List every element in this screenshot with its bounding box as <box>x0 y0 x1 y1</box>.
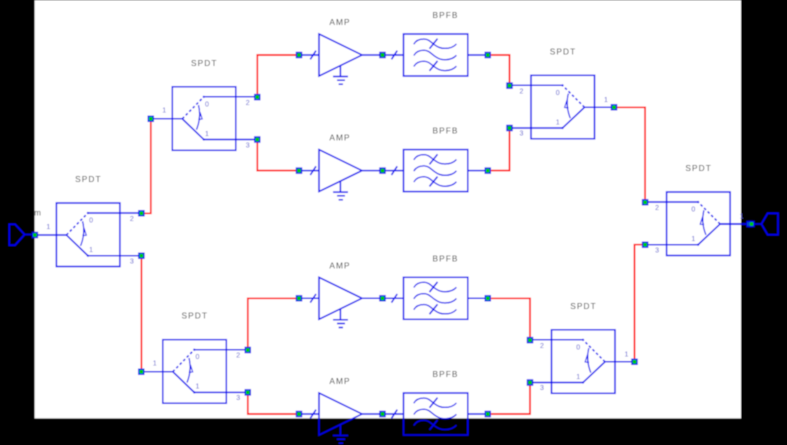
svg-text:3: 3 <box>540 385 544 392</box>
svg-text:3: 3 <box>236 395 240 402</box>
svg-text:3: 3 <box>655 247 659 254</box>
svg-text:BPFB: BPFB <box>432 126 458 136</box>
svg-text:m: m <box>34 208 41 217</box>
svg-text:2: 2 <box>236 353 240 360</box>
svg-text:2: 2 <box>540 343 544 350</box>
svg-text:AMP: AMP <box>329 376 350 386</box>
svg-text:AMP: AMP <box>329 133 350 143</box>
svg-text:BPFB: BPFB <box>432 253 458 263</box>
svg-text:2: 2 <box>246 100 250 107</box>
svg-text:AMP: AMP <box>329 17 350 27</box>
svg-text:1: 1 <box>691 236 695 243</box>
svg-text:1: 1 <box>625 351 629 358</box>
svg-text:SPDT: SPDT <box>182 311 209 321</box>
svg-text:0: 0 <box>691 207 695 214</box>
svg-text:1: 1 <box>162 108 166 115</box>
svg-text:SPDT: SPDT <box>685 163 712 173</box>
svg-text:BPFB: BPFB <box>432 10 458 20</box>
svg-text:1: 1 <box>556 119 560 126</box>
svg-text:3: 3 <box>130 259 134 266</box>
svg-text:1: 1 <box>196 384 200 391</box>
svg-text:1: 1 <box>740 214 744 221</box>
svg-text:3: 3 <box>520 131 524 138</box>
svg-text:SPDT: SPDT <box>191 58 218 68</box>
svg-text:1: 1 <box>576 374 580 381</box>
svg-text:3: 3 <box>246 142 250 149</box>
svg-text:SPDT: SPDT <box>570 301 597 311</box>
svg-text:2: 2 <box>655 205 659 212</box>
svg-text:0: 0 <box>196 354 200 361</box>
svg-text:BPFB: BPFB <box>432 369 458 379</box>
svg-text:AMP: AMP <box>329 260 350 270</box>
svg-text:SPDT: SPDT <box>75 174 102 184</box>
svg-text:2: 2 <box>520 88 524 95</box>
svg-text:1: 1 <box>153 361 157 368</box>
svg-text:1: 1 <box>205 131 209 138</box>
svg-text:1: 1 <box>46 224 50 231</box>
svg-text:SPDT: SPDT <box>550 46 577 56</box>
svg-text:2: 2 <box>130 216 134 223</box>
svg-text:1: 1 <box>604 97 608 104</box>
svg-text:0: 0 <box>205 101 209 108</box>
svg-text:0: 0 <box>556 90 560 97</box>
svg-text:0: 0 <box>89 218 93 225</box>
svg-text:1: 1 <box>89 247 93 254</box>
svg-text:0: 0 <box>576 344 580 351</box>
